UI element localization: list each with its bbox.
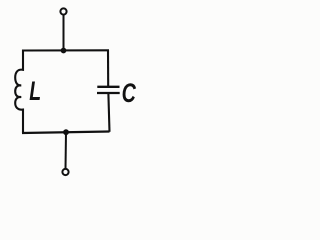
wire: top terminal lead xyxy=(63,15,65,51)
node: top junction dot xyxy=(61,48,67,54)
inductor L1 (left branch with coil) xyxy=(15,50,23,134)
wire: bottom horizontal xyxy=(22,132,110,134)
terminal T1 (top open circle) xyxy=(60,8,66,14)
wire: right vertical upper xyxy=(107,50,109,86)
wire: top horizontal xyxy=(22,49,109,51)
svg-text:C: C xyxy=(122,79,137,109)
paper background xyxy=(0,0,146,186)
terminal T2 (bottom open circle) xyxy=(62,169,68,175)
wire: right vertical lower xyxy=(108,94,109,132)
capacitor C1 plates xyxy=(97,86,119,88)
svg-text:L: L xyxy=(29,76,41,106)
node: bottom junction dot xyxy=(63,129,69,135)
wire: bottom terminal lead xyxy=(65,132,68,169)
